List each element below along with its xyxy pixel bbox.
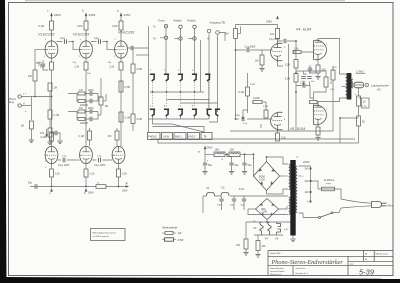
damping resistor network box (359, 98, 370, 108)
svg-text:V2: V2 (221, 186, 225, 190)
legend resistor 1W (162, 232, 182, 236)
resistor V3 column extra 1 (119, 81, 130, 92)
svg-text:0,1µ: 0,1µ (60, 37, 65, 40)
wire: bridge2 S stub (266, 220, 268, 222)
tube V5 EL84 half-envelope (314, 102, 327, 126)
svg-text:Bl.: Bl. (365, 254, 368, 256)
selector label box PHONO (148, 133, 161, 140)
ground shield (29, 140, 34, 143)
wire: primary center tap stub (342, 86, 347, 88)
capacitor tone 2b (90, 117, 92, 121)
potentiometer input level (225, 27, 240, 39)
svg-text:0,22M: 0,22M (253, 97, 260, 100)
resistor hum balance 2 (256, 241, 266, 251)
wire: V5 grid resistor (314, 87, 327, 108)
mains tap 220V (305, 180, 312, 183)
ground filter 3 (242, 172, 247, 175)
speaker jack box (354, 82, 364, 88)
svg-text:0,1µ 125V: 0,1µ 125V (94, 164, 106, 167)
svg-text:2200: 2200 (88, 107, 94, 110)
ground hum 2 (255, 255, 260, 258)
wire: fuse to cord (335, 189, 342, 199)
wire: TB units to bus (209, 116, 218, 122)
capacitor tone 1a (90, 91, 92, 95)
svg-text:245V: 245V (124, 13, 131, 17)
capacitor filter 2 (229, 163, 239, 167)
svg-text:10H: 10H (230, 149, 235, 152)
tube V3b driver half-envelope (271, 112, 283, 131)
svg-text:1,5k: 1,5k (294, 48, 299, 51)
svg-text:0,5W: 0,5W (178, 239, 184, 242)
svg-text:1,5k: 1,5k (74, 66, 79, 69)
wire: V1 cathode down (51, 58, 53, 62)
capacitor lower stage (50, 131, 60, 140)
svg-text:Netz: Netz (388, 204, 394, 208)
svg-text:100n: 100n (217, 205, 223, 207)
capacitor heater 1 (217, 199, 224, 206)
wire: V2b cathode to bus (85, 164, 87, 169)
supply arrow b (82, 9, 96, 18)
resistor shield column (21, 121, 34, 129)
svg-text:A: A (125, 182, 128, 186)
svg-text:110: 110 (305, 191, 309, 194)
resistor damping (357, 96, 361, 106)
svg-text:1M: 1M (255, 60, 258, 63)
svg-text:Radio2: Radio2 (188, 19, 197, 23)
capacitor filter 1 (203, 163, 213, 167)
wire: V3a plate resistor leads (277, 39, 279, 45)
svg-text:245V: 245V (88, 192, 94, 195)
switch S1 contact row2 TB unit5 (206, 109, 211, 116)
title block (268, 251, 393, 276)
resistor 0.1M mid (48, 110, 59, 119)
mains tap 110V (305, 191, 312, 194)
svg-text:0,1M: 0,1M (285, 65, 290, 67)
resistor tone 1b (78, 100, 85, 103)
svg-text:0,1M: 0,1M (263, 106, 268, 108)
selector label box RADIO I (174, 133, 186, 140)
svg-text:Geprüft 1x: Geprüft 1x (296, 267, 307, 270)
note box electrolytics (91, 229, 126, 241)
fuse Si (322, 179, 335, 191)
wire: secondary to speaker (351, 83, 354, 86)
svg-text:Eing.: Eing. (9, 101, 15, 104)
svg-text:2,2k: 2,2k (55, 173, 60, 176)
wire: tuner jack drop (165, 28, 167, 74)
resistor bias divider h (253, 97, 262, 104)
tube V1 ECC83 upper (38, 33, 58, 59)
resistor V1b plate (40, 132, 53, 141)
capacitor tone 2a (90, 109, 92, 113)
ground V4 cathode (315, 77, 320, 80)
supply arrow driver plate (266, 16, 279, 24)
resistor tone 1a (78, 92, 85, 95)
svg-text:V5 - EL84: V5 - EL84 (290, 127, 305, 131)
wire: primary top tap (299, 175, 302, 177)
wire: V2 plate column (85, 30, 87, 41)
wire: V5 plate to transformer (318, 98, 346, 102)
svg-text:BW-02-mxxx: BW-02-mxxx (376, 254, 389, 256)
capacitor filter 3 (242, 163, 252, 167)
node A label (122, 182, 129, 193)
wire: V1b cathode to bus (51, 164, 53, 169)
svg-text:50µ: 50µ (248, 164, 253, 167)
resistor V1 cathode (40, 62, 54, 70)
jack Radio (179, 25, 182, 28)
label Lautsprecher (365, 83, 390, 91)
wire: switch mid bus (150, 91, 204, 93)
selector label box RADIO II (188, 133, 200, 140)
wire: heater left drop (203, 196, 206, 213)
label output transformer (356, 70, 366, 74)
heater filament V3 (253, 222, 263, 235)
svg-text:1M: 1M (54, 87, 57, 90)
wire: mixer column (132, 50, 134, 132)
switch S1 contact row2 unit1 (150, 109, 155, 116)
capacitor coupling lower 1 (58, 158, 70, 167)
wire: plate to coupling cap2 (278, 41, 297, 44)
jack Tuner (164, 25, 167, 28)
wire: TB jack 8 drop (209, 33, 225, 109)
wire: input shield column (30, 97, 32, 121)
tube V2 ECC83 lower (80, 146, 93, 163)
svg-text:220: 220 (305, 180, 310, 183)
wire: B+ feed c vertical (51, 16, 53, 21)
ground V5 cathode (315, 138, 320, 141)
wire: V1 grid left column (35, 50, 45, 97)
svg-text:0,1µ: 0,1µ (243, 123, 248, 125)
wire: V3b plate to cap (243, 110, 248, 119)
resistor V3b plate load (238, 87, 249, 96)
switch S1 contact row2 TB unit6 (215, 109, 220, 116)
tone network group upper (77, 89, 98, 107)
wire: B+ feed a vertical (120, 16, 122, 21)
arrow feed lower stage (45, 129, 47, 138)
svg-text:mit 450V geprüft: mit 450V geprüft (93, 235, 109, 238)
wire: V4 plate to transformer (318, 39, 346, 75)
svg-text:träge: träge (326, 182, 332, 185)
capacitor V5 coupling (300, 82, 305, 88)
svg-text:1,5kΩ: 1,5kΩ (356, 70, 364, 74)
potentiometer volume (99, 94, 108, 108)
wire: V3b cathode down (118, 164, 120, 169)
svg-text:1Ω: 1Ω (363, 102, 366, 104)
wire: TB jack 7 drop (217, 35, 219, 112)
svg-text:245V: 245V (266, 20, 272, 24)
capacitor coupling to V3a (245, 46, 256, 53)
heater filament V4 (265, 222, 272, 241)
wire: supply arrow lead (277, 25, 279, 29)
svg-text:0,3M: 0,3M (250, 84, 255, 86)
wire: mixer lower out (136, 54, 149, 56)
capacitor heater 3 (241, 199, 247, 206)
wire: feedback vertical caps (304, 71, 310, 86)
svg-text:Elektrolytkondensatoren: Elektrolytkondensatoren (93, 232, 117, 235)
junction dots on bus (51, 186, 53, 188)
svg-text:220V: 220V (302, 160, 311, 164)
svg-text:München 15: München 15 (270, 274, 282, 276)
svg-text:0,1µ: 0,1µ (235, 114, 240, 117)
mains plug (372, 202, 394, 208)
wire: heater bus (206, 195, 221, 197)
wire: phono jack drop (194, 29, 196, 74)
resistor V3b cathode (117, 169, 128, 177)
wire: bridge E to transformer (280, 175, 288, 177)
svg-text:0,3M: 0,3M (125, 86, 130, 89)
svg-text:Si 250mA: Si 250mA (324, 179, 335, 182)
switch S1 contact row1 unit5 (205, 74, 210, 81)
resistor R1 V1 plate (38, 21, 53, 30)
mains tap 0V (307, 200, 311, 203)
switch S1 contact row2 unit2 (164, 109, 169, 116)
choke L1 (214, 149, 225, 157)
resistor V3b grid leak (264, 110, 268, 118)
jack Phono (193, 25, 196, 28)
wire: bias resistor h (252, 102, 266, 110)
wire: coupling cap V2-V3 (91, 42, 115, 50)
svg-text:Radio RIM: Radio RIM (270, 253, 281, 255)
ground hum 1 (243, 253, 248, 256)
wire: primary taps right (299, 166, 311, 218)
wire: bridge2 E lead (279, 206, 288, 209)
capacitor V3 output (128, 46, 149, 50)
tone network group lower (77, 107, 98, 125)
wire: bridge2 W lead (248, 208, 256, 210)
resistor V3b plate (107, 131, 119, 140)
bridge rectifier B2 B250C75 (256, 199, 279, 220)
svg-text:V4 - EL84: V4 - EL84 (296, 28, 311, 32)
wire: V3b plate column (247, 73, 249, 113)
ground filter 2 (229, 172, 234, 175)
svg-text:C350: C350 (262, 212, 268, 214)
svg-text:Radio1: Radio1 (174, 19, 183, 23)
selector label box UKW (162, 133, 173, 140)
svg-text:0,1M: 0,1M (112, 25, 118, 28)
wire: heater caps drops (222, 196, 245, 210)
svg-text:5Ω: 5Ω (362, 122, 365, 124)
svg-text:PHONO: PHONO (148, 136, 157, 138)
svg-text:V3-ECC83: V3-ECC83 (118, 31, 134, 35)
resistor V5 grid (310, 100, 318, 103)
switch S1 contact row2 unit4 (192, 109, 197, 116)
tube V1 ECC83 lower (45, 146, 58, 163)
svg-text:0,1µ: 0,1µ (94, 37, 99, 40)
wire: filter cap drops (205, 154, 245, 162)
wire: bridge S stub (266, 191, 268, 195)
heater filament V1 (206, 186, 215, 196)
wire: V3b cathode (261, 124, 278, 133)
resistor V3b cathode (276, 133, 287, 141)
svg-text:2200: 2200 (88, 89, 94, 92)
capacitor coupling V2-V3 0.1u (94, 37, 100, 44)
wire: selector second line (158, 140, 359, 144)
wire: V2 column to lower tube (85, 70, 87, 146)
svg-text:1M: 1M (225, 33, 228, 36)
supply arrow a (117, 9, 131, 18)
wire: feedback network top (296, 71, 326, 77)
wire: lower coupling caps (58, 159, 80, 161)
wire: V1 column to lower tube (51, 70, 53, 146)
svg-text:Lautsprecher: Lautsprecher (371, 84, 390, 88)
tube V4 EL84 half-envelope (314, 39, 327, 62)
wire: selector to lower amp line (151, 138, 355, 141)
svg-text:2,2k: 2,2k (90, 173, 95, 176)
resistor R2 V2 plate (77, 21, 88, 30)
wire: tap 220 to fuse (311, 181, 322, 189)
capacitor heater 2 (230, 199, 236, 206)
svg-text:Radio-Bauteile: Radio-Bauteile (270, 267, 284, 270)
left scan edge black strip (0, 0, 7, 283)
resistor V1 grid column (28, 70, 37, 81)
wire: grid resistor column (49, 97, 51, 111)
jack Phono row2 (193, 37, 196, 40)
resistor V4 grid stopper (293, 48, 301, 54)
ground transformer core (290, 239, 295, 242)
svg-text:Phono-Stereo-Endverstärker: Phono-Stereo-Endverstärker (271, 259, 344, 266)
svg-text:0,1M: 0,1M (125, 117, 130, 120)
wire: selector left boundary (148, 26, 150, 133)
svg-text:245V: 245V (122, 190, 128, 193)
svg-text:2,2k: 2,2k (281, 137, 286, 140)
wire: node a up arrow lead (204, 149, 206, 154)
wire: grid stopper leads (293, 51, 313, 53)
wire: volume pot column (100, 78, 102, 115)
resistor V3a plate load (270, 29, 280, 39)
resistor V2 cathode (74, 62, 88, 70)
input jack II (18, 102, 25, 108)
wire: dc heater bus top (246, 221, 291, 223)
wire: V1 plate column (51, 30, 53, 41)
wire: dc heater drops to resistors (246, 222, 258, 241)
svg-text:1M: 1M (21, 125, 24, 128)
wire: V3 column to lower tube (120, 70, 122, 146)
wire: HT secondary taps (267, 157, 289, 194)
wire: transformer core ground lead (292, 236, 294, 239)
sprinkled value labels (25, 39, 357, 231)
svg-text:245V: 245V (207, 146, 213, 150)
resistor lower stage (40, 128, 52, 137)
resistor splitter lower (285, 74, 298, 83)
wire: coupling cap V1-V2 (57, 42, 80, 50)
wire: splitter riser (295, 41, 297, 131)
resistor boucherot (331, 70, 335, 80)
capacitor V1 cathode bypass (36, 60, 48, 70)
svg-text:5-39: 5-39 (359, 268, 375, 277)
svg-text:4Ω: 4Ω (377, 88, 380, 92)
svg-text:245V: 245V (89, 13, 96, 17)
wire: input jack II (21, 105, 31, 107)
svg-text:0,1µ 630V: 0,1µ 630V (269, 38, 280, 41)
top scan edge gray line (25, 0, 345, 1)
transformer T1 primary winding (296, 166, 297, 213)
resistor V3a grid leak (255, 55, 264, 65)
legend resistor 0.5W (162, 238, 184, 242)
svg-text:130: 130 (322, 69, 327, 72)
wire: pot top feed rail (236, 25, 278, 29)
switch S1 contact row2 unit3 (178, 109, 183, 116)
switch S1 contact row1 unit2 (164, 74, 169, 81)
svg-text:0,1M: 0,1M (78, 135, 84, 138)
wire: lower plate resistors columns (89, 128, 91, 146)
wire: dc heater lower bus (254, 234, 283, 236)
node c label (50, 188, 53, 195)
svg-text:6,3V: 6,3V (284, 229, 289, 231)
wire: input jack I to grid (21, 91, 50, 97)
wire: B+ filter rail (205, 153, 254, 155)
wire: tone network feed (68, 94, 77, 112)
wire: bridge plus vertical (253, 154, 256, 176)
svg-text:0,1µ: 0,1µ (62, 156, 67, 158)
resistor V3 column extra 2 (119, 112, 130, 122)
svg-text:2,2k: 2,2k (109, 66, 114, 69)
svg-text:V5: V5 (275, 237, 279, 241)
mains tap 240V (305, 167, 312, 170)
wire: splitter second riser (288, 44, 290, 131)
bridge rectifier B1 B250C100 (254, 162, 280, 191)
resistor V2b cathode (84, 169, 95, 177)
resistor hum balance 1 (236, 239, 248, 249)
resistor tone 2b (78, 118, 85, 121)
tube V3 ECC83 upper (115, 31, 135, 59)
svg-text:V4: V4 (265, 237, 269, 241)
svg-text:V1: V1 (206, 186, 210, 190)
svg-text:II: II (23, 102, 25, 106)
wire: B+ feed b vertical (85, 16, 87, 21)
resistor splitter upper (285, 60, 298, 69)
svg-text:Bl.: Bl. (365, 259, 368, 261)
resistor V4 cathode (316, 65, 326, 73)
resistor V3 cathode (109, 62, 123, 70)
resistor feedback (324, 77, 333, 87)
svg-text:V3: V3 (253, 226, 257, 230)
svg-text:245V: 245V (54, 13, 61, 17)
output transformer primary winding (346, 74, 348, 98)
heater filament V5 (275, 222, 281, 241)
node a arrow (198, 146, 213, 154)
svg-text:V1-ECC83: V1-ECC83 (38, 33, 54, 37)
resistor R3 V3 plate (112, 21, 123, 30)
wire: V2 cathode down (85, 58, 87, 62)
svg-text:50µ: 50µ (235, 164, 240, 167)
wire: tone network out (98, 97, 101, 115)
tube V3a driver half-envelope (271, 43, 283, 62)
svg-text:0,1µ: 0,1µ (97, 156, 102, 158)
svg-text:0,1µ 630V: 0,1µ 630V (245, 46, 256, 49)
svg-text:0,1µ: 0,1µ (362, 106, 367, 108)
svg-text:50µ: 50µ (28, 182, 33, 185)
supply arrow c (47, 9, 61, 18)
tube V2 ECC83 upper (73, 33, 92, 59)
resistor damping lower (357, 116, 366, 126)
resistor in B+ bus (96, 183, 106, 189)
jack Tuner row2 (164, 36, 167, 39)
wire: feedback to selector lines (230, 66, 340, 143)
svg-text:0,1M: 0,1M (77, 25, 83, 28)
wire: bridge N stub (266, 157, 268, 162)
selector label box TB (201, 133, 212, 140)
svg-text:Versand GmbH: Versand GmbH (270, 270, 285, 273)
ground lower stage (47, 142, 52, 145)
output transformer secondary winding (352, 79, 353, 88)
wire: selector right boundary (200, 40, 202, 92)
svg-text:TA: TA (153, 38, 156, 41)
svg-text:0,1µ 125V: 0,1µ 125V (58, 164, 70, 167)
capacitor tone 1b (90, 99, 92, 103)
bottom scan edge black strip (0, 277, 400, 283)
svg-text:0,1M: 0,1M (54, 114, 60, 117)
svg-text:0,1M: 0,1M (285, 79, 290, 81)
svg-text:Ausgang TB: Ausgang TB (210, 21, 225, 25)
